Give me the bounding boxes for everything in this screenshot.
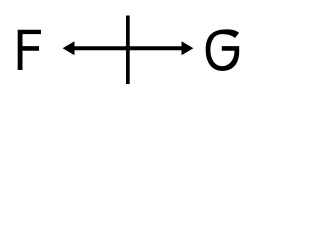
- label G: [206, 29, 240, 71]
- double-headed arrow: [63, 41, 194, 55]
- diagram: F <-> G with vertical line (lens/axis sketch): [0, 0, 250, 100]
- vertical line: [126, 16, 130, 85]
- label F: [18, 30, 41, 70]
